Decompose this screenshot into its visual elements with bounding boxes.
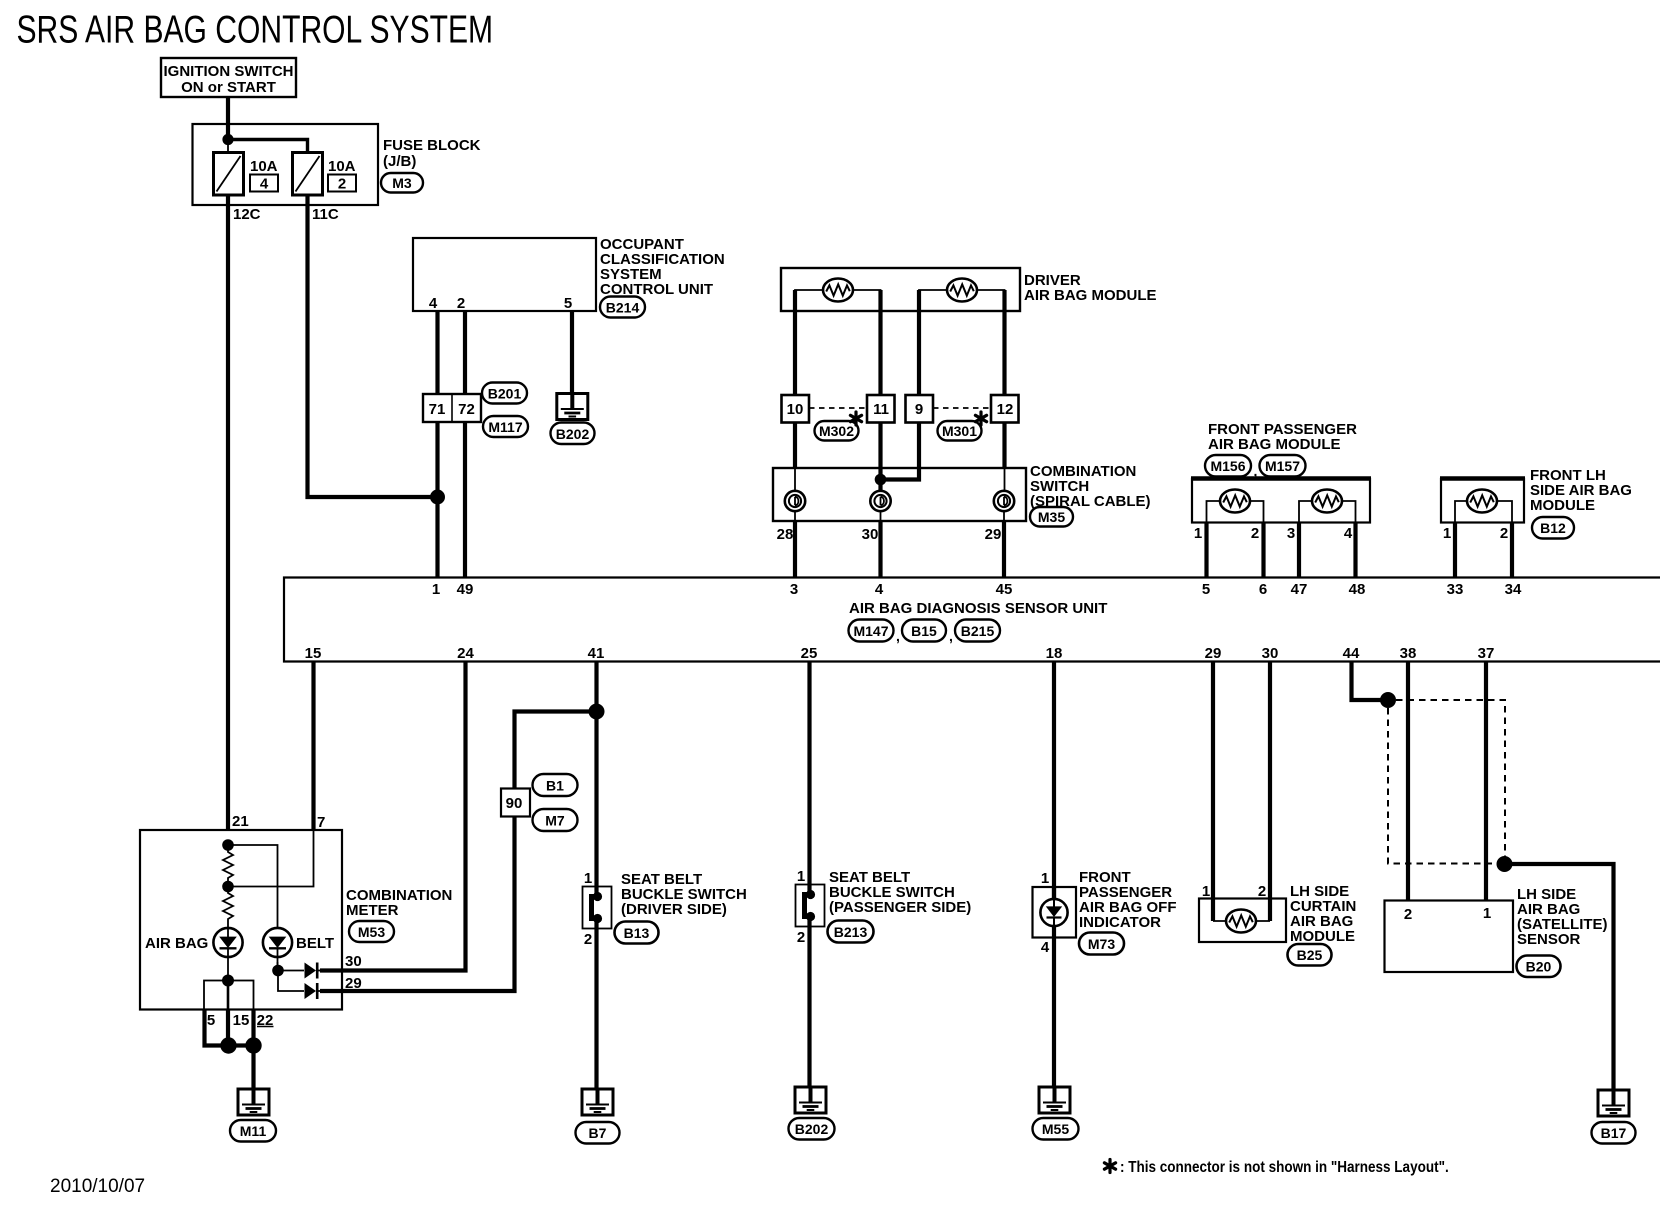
svg-text:ON or START: ON or START: [181, 79, 276, 96]
svg-text:B13: B13: [624, 925, 650, 941]
driver air bag squib 1: [823, 279, 853, 302]
wire sensor pin 25 to passenger buckle switch: [807, 661, 811, 894]
svg-text:M53: M53: [358, 924, 385, 940]
connector terminal 12 box: [991, 395, 1019, 423]
wire spiral 28 to sensor unit pin 3: [794, 511, 796, 577]
wire squib1 left lead: [795, 290, 823, 311]
connector M302 oval: [815, 421, 859, 441]
svg-text:5: 5: [207, 1012, 215, 1029]
node junction belt lamp output: [272, 965, 284, 977]
wire sensor pin 44 elbow to node: [1352, 661, 1385, 700]
node junction 11C joins occupant pin4 wire: [430, 490, 445, 505]
svg-text:37: 37: [1478, 645, 1495, 662]
svg-text:(DRIVER SIDE): (DRIVER SIDE): [621, 901, 727, 918]
svg-text:11C: 11C: [312, 206, 339, 223]
sensor unit bottom pin 24: [457, 645, 474, 662]
seat belt buckle switch passenger side B213 box: [796, 885, 825, 927]
svg-text:FUSE BLOCK: FUSE BLOCK: [383, 137, 481, 154]
AIR BAG lamp label: [145, 935, 208, 952]
sensor unit top pin 6: [1259, 581, 1267, 598]
curtain module pin 1 label: [1202, 883, 1210, 900]
svg-text:2: 2: [338, 176, 346, 193]
ground M55: [1039, 1087, 1070, 1113]
seat belt buckle switch driver side B13 box: [583, 887, 612, 929]
ground B7: [582, 1089, 613, 1115]
connector terminal 10 box: [782, 395, 810, 423]
svg-text:49: 49: [457, 581, 474, 598]
wire passenger pin4 to sensor pin 48: [1353, 522, 1357, 577]
spiral cable contact 28: [785, 491, 805, 511]
air bag diagnosis sensor unit box: [284, 578, 1660, 662]
front LH module label: [1530, 467, 1632, 514]
svg-text:M156: M156: [1210, 458, 1245, 474]
svg-text:5: 5: [1202, 581, 1210, 598]
svg-text:33: 33: [1447, 581, 1464, 598]
connector B1 oval: [533, 774, 578, 796]
svg-text:AIR BAG: AIR BAG: [145, 935, 208, 952]
wire 12C fuse to combination meter pin 21: [226, 195, 230, 830]
wire squib2 right lead: [977, 290, 1005, 311]
svg-text:B202: B202: [556, 426, 590, 442]
front passenger air bag module box: [1191, 479, 1371, 523]
node junction spiral cable feed: [875, 474, 887, 486]
wire sensor pin 38 to satellite sensor pin 2: [1406, 661, 1410, 900]
connector B15 oval: [902, 620, 946, 642]
comma 1: [896, 628, 900, 644]
svg-text:2010/10/07: 2010/10/07: [50, 1176, 145, 1197]
svg-text:41: 41: [588, 645, 605, 662]
fuse block M3: [193, 124, 379, 205]
svg-text:29: 29: [345, 975, 362, 992]
wire sensor pin 41 down to seat belt buckle switch: [594, 661, 598, 896]
MAIN TITLE: [17, 9, 494, 51]
svg-text:M55: M55: [1042, 1121, 1069, 1137]
node junction pin44 dashed link: [1380, 692, 1396, 708]
wire junction to fuse 4: [227, 140, 229, 154]
meter pin 7 label: [317, 814, 325, 831]
svg-text:10A: 10A: [328, 158, 356, 175]
sensor unit bottom pin 25: [801, 645, 818, 662]
indicator LED: [1040, 899, 1067, 926]
svg-text:B202: B202: [795, 1121, 829, 1137]
fuse 4 (10A): [214, 153, 279, 196]
occupant unit label: [600, 236, 725, 298]
svg-text:2: 2: [1251, 525, 1259, 542]
connector M117 oval: [483, 416, 528, 437]
svg-text:M147: M147: [853, 623, 888, 639]
connector B17 oval: [1592, 1122, 1636, 1144]
svg-text:44: 44: [1343, 645, 1360, 662]
asterisk mark M301: [975, 412, 986, 425]
svg-text:BELT: BELT: [296, 935, 334, 952]
svg-text:2: 2: [584, 931, 592, 948]
svg-text:72: 72: [458, 401, 475, 418]
svg-text:1: 1: [797, 868, 805, 885]
node junction between resistors: [222, 881, 234, 893]
dashed connector link 9-12: [933, 407, 991, 409]
dashed shield link box: [1388, 700, 1505, 864]
sensor unit top pin 4: [875, 581, 884, 598]
node junction lamp to pins 5/15: [222, 975, 234, 987]
ground M11: [238, 1089, 269, 1115]
wire connector 12 to spiral cable: [1002, 422, 1006, 491]
svg-text:30: 30: [1262, 645, 1279, 662]
terminal 12C label: [233, 206, 261, 223]
sensor unit top pin 49: [457, 581, 474, 598]
meter pin 15 label: [233, 1012, 250, 1029]
comma 2: [949, 628, 953, 644]
svg-text:21: 21: [232, 813, 249, 830]
svg-text:12: 12: [997, 401, 1014, 418]
wire junction 41 to connector 90 down to meter terminal 29: [320, 712, 597, 992]
wire 11C fuse down and right to node: [308, 195, 435, 497]
svg-text:30: 30: [862, 526, 879, 543]
svg-text:25: 25: [801, 645, 818, 662]
svg-text:M301: M301: [942, 423, 977, 439]
sensor unit top pin 45: [996, 581, 1013, 598]
combination switch label: [1030, 463, 1151, 510]
svg-text:IGNITION SWITCH: IGNITION SWITCH: [164, 63, 294, 80]
node junction meter pin21 branch: [222, 839, 234, 851]
svg-text:28: 28: [777, 526, 794, 543]
spiral cable contact 30: [870, 491, 890, 511]
fuse 2 (10A): [293, 153, 357, 196]
wire ignition switch to fuse block: [226, 97, 230, 140]
wire meter pin 22 down to ground: [251, 1009, 255, 1089]
svg-text:MODULE: MODULE: [1290, 928, 1355, 945]
connector B7 oval: [576, 1122, 620, 1144]
svg-text:71: 71: [429, 401, 446, 418]
indicator pin 1 label: [1041, 870, 1049, 887]
svg-text:45: 45: [996, 581, 1013, 598]
connector 71/72 box: [423, 394, 481, 422]
svg-text:B213: B213: [834, 924, 868, 940]
wire occupant pin 4 to sensor unit pin 1: [435, 311, 439, 577]
sensor unit label: [849, 600, 1107, 617]
wire module to connector 11: [878, 290, 882, 396]
svg-text:9: 9: [915, 401, 923, 418]
wire LH squib pin1 lead: [1455, 501, 1467, 522]
svg-text:29: 29: [1205, 645, 1222, 662]
terminal 11C label: [312, 206, 339, 223]
wire meter pin 15 down: [226, 1009, 230, 1046]
wire module to connector 12: [1002, 290, 1006, 396]
svg-text:34: 34: [1505, 581, 1522, 598]
wire passenger squib2 pin3 lead: [1299, 501, 1312, 522]
sensor unit bottom pin 44: [1343, 645, 1360, 662]
svg-text:: This connector is not shown: : This connector is not shown in "Harnes…: [1120, 1159, 1449, 1176]
svg-text:15: 15: [305, 645, 322, 662]
wire sensor pin 18 to air bag off indicator: [1052, 661, 1056, 899]
sensor unit top pin 48: [1349, 581, 1366, 598]
svg-text:AIR BAG DIAGNOSIS SENSOR UNIT: AIR BAG DIAGNOSIS SENSOR UNIT: [849, 600, 1107, 617]
buckle switch passenger pin 1 label: [797, 868, 805, 885]
wire sensor pin 37 to satellite sensor pin 1: [1484, 661, 1488, 900]
wire sensor pin 30 to curtain module pin 2: [1268, 661, 1272, 921]
connector B201 oval: [482, 383, 527, 404]
fuse block label: [383, 137, 481, 170]
connector M73 oval: [1079, 933, 1124, 955]
connector B215 oval: [955, 620, 1000, 642]
wire curtain squib leads: [1213, 920, 1270, 922]
buckle switch driver pin 1 label: [584, 870, 592, 887]
wire passenger squib1 pin2 lead: [1250, 501, 1264, 522]
resistor R1 (air bag lamp): [223, 845, 233, 886]
meter pin 5 label: [207, 1012, 215, 1029]
svg-text:29: 29: [985, 526, 1002, 543]
svg-text:M73: M73: [1088, 936, 1115, 952]
meter pin 21 label: [232, 813, 249, 830]
wire module to connector 10: [793, 290, 797, 396]
power source IGNITION SWITCH box: [161, 58, 296, 97]
svg-text:M7: M7: [545, 813, 565, 829]
sensor unit top pin 1: [432, 581, 440, 598]
svg-text:2: 2: [1404, 906, 1412, 923]
connector B202 oval (buckle ground): [789, 1118, 835, 1140]
connector terminal 9 box: [906, 395, 934, 423]
wire passenger pin2 to sensor pin 6: [1261, 522, 1265, 577]
svg-text:B20: B20: [1526, 959, 1552, 975]
svg-text:7: 7: [317, 814, 325, 831]
dashed connector link 10-11: [809, 407, 867, 409]
connector B214 oval: [600, 297, 645, 318]
wire LH pin1 to sensor pin 33: [1453, 522, 1457, 577]
svg-text:,: ,: [949, 628, 953, 644]
svg-text:10: 10: [787, 401, 804, 418]
sensor unit bottom pin 18: [1046, 645, 1063, 662]
svg-text:B214: B214: [606, 300, 640, 316]
svg-text:2: 2: [457, 295, 465, 312]
sensor unit top pin 33: [1447, 581, 1464, 598]
air bag warning lamp LED: [213, 928, 242, 957]
node junction pins 5-15: [220, 1037, 236, 1053]
meter terminal 30 label: [345, 953, 362, 970]
svg-text:1: 1: [1202, 883, 1210, 900]
diode output 30: [305, 963, 323, 979]
sensor unit top pin 3: [790, 581, 798, 598]
connector M55 oval: [1033, 1118, 1079, 1140]
terminal 30 label: [862, 526, 879, 543]
wire buckle driver to ground B7: [594, 919, 598, 1090]
passenger module pin 3 label: [1287, 525, 1295, 542]
wire node to node: [229, 1043, 254, 1047]
connector M147 oval: [849, 620, 894, 642]
seat belt buckle switch passenger label: [829, 869, 971, 916]
terminal 29 label: [985, 526, 1002, 543]
buckle switch passenger contacts: [805, 890, 816, 921]
svg-text:1: 1: [1443, 525, 1451, 542]
connector 90 box: [501, 789, 530, 817]
wire occupant pin 2 to sensor unit pin 49: [463, 311, 467, 577]
wire belt node down to diode 29: [278, 971, 304, 992]
passenger squib 2: [1312, 490, 1342, 513]
sensor unit bottom pin 30: [1262, 645, 1279, 662]
svg-text:INDICATOR: INDICATOR: [1079, 914, 1161, 931]
svg-text:4: 4: [1344, 525, 1353, 542]
svg-text:90: 90: [506, 795, 523, 812]
connector M35 oval: [1030, 507, 1073, 527]
svg-text:M35: M35: [1038, 509, 1065, 525]
svg-text:B12: B12: [1540, 520, 1566, 536]
ground B17: [1598, 1090, 1629, 1116]
svg-text:B17: B17: [1601, 1125, 1627, 1141]
connector M7 oval: [533, 809, 578, 831]
indicator label: [1079, 869, 1177, 931]
curtain module squib: [1226, 910, 1256, 933]
svg-text:B1: B1: [546, 778, 564, 794]
wire connector 10 to spiral cable: [793, 422, 797, 491]
passenger squib 1: [1220, 490, 1250, 513]
LH side curtain air bag module B25 box: [1199, 899, 1286, 943]
svg-text:5: 5: [564, 295, 572, 312]
connector M3 oval: [381, 173, 423, 193]
ground B202 (occupant unit): [557, 394, 588, 420]
svg-text:48: 48: [1349, 581, 1366, 598]
svg-text:3: 3: [790, 581, 798, 598]
driver air bag module box: [781, 268, 1020, 311]
svg-text:B7: B7: [589, 1125, 607, 1141]
wire shield node to ground B17: [1505, 864, 1614, 1090]
combination meter label: [346, 887, 452, 919]
combination switch (spiral cable) M35 box: [773, 468, 1026, 521]
svg-text:4: 4: [875, 581, 884, 598]
svg-text:M117: M117: [488, 419, 522, 435]
wire air bag lamp to meter pins: [227, 957, 229, 980]
svg-text:12C: 12C: [233, 206, 261, 223]
svg-text:(PASSENGER SIDE): (PASSENGER SIDE): [829, 899, 971, 916]
wire connector 11 to spiral cable: [878, 422, 882, 491]
BELT lamp label: [296, 935, 334, 952]
node junction pin 22: [245, 1037, 261, 1053]
sensor unit top pin 5: [1202, 581, 1210, 598]
wire passenger squib1 pin1 lead: [1207, 501, 1221, 522]
svg-text:1: 1: [584, 870, 592, 887]
svg-text:(J/B): (J/B): [383, 153, 416, 170]
wire passenger pin1 to sensor pin 5: [1204, 522, 1208, 577]
wire meter pin 15 inside: [227, 980, 230, 1009]
svg-text:M157: M157: [1265, 458, 1300, 474]
wire sensor pin 29 to curtain module pin 1: [1211, 661, 1215, 921]
wire junction to fuse 2: [228, 140, 308, 154]
svg-text:24: 24: [457, 645, 474, 662]
front LH module pin 1 label: [1443, 525, 1451, 542]
passenger module pin 2 label: [1251, 525, 1259, 542]
driver air bag module label: [1024, 272, 1157, 304]
svg-text:4: 4: [1041, 939, 1050, 956]
svg-text:2: 2: [797, 929, 805, 946]
wire LH squib pin2 lead: [1497, 501, 1512, 522]
wire branch to belt lamp: [228, 845, 278, 929]
meter pin 22 label: [257, 1012, 274, 1029]
passenger module pin 1 label: [1194, 525, 1202, 542]
curtain module pin 2 label: [1258, 883, 1266, 900]
wire module to connector 9: [917, 290, 921, 396]
wire passenger squib2 pin4 lead: [1342, 501, 1356, 522]
LH side air bag satellite sensor B20 box: [1385, 901, 1514, 973]
combination meter M53 box: [140, 830, 342, 1010]
wire indicator to ground M55: [1052, 937, 1056, 1087]
buckle switch driver pin 2 label: [584, 931, 592, 948]
indicator pin 4 label: [1041, 939, 1050, 956]
wire occupant pin 5 to ground: [570, 311, 574, 395]
front passenger air bag module label: [1208, 421, 1357, 453]
svg-text:AIR BAG MODULE: AIR BAG MODULE: [1208, 436, 1341, 453]
wire buckle passenger to ground B202: [807, 917, 811, 1088]
svg-text:15: 15: [233, 1012, 250, 1029]
connector M301 oval: [938, 421, 982, 441]
sensor unit top pin 34: [1505, 581, 1522, 598]
sensor unit bottom pin 37: [1478, 645, 1495, 662]
wire connector 9 elbow to node: [884, 422, 919, 480]
svg-text:,: ,: [896, 628, 900, 644]
sensor unit bottom pin 38: [1400, 645, 1417, 662]
passenger module pin 4 label: [1344, 525, 1353, 542]
connector M11 oval: [230, 1120, 276, 1142]
svg-text:B15: B15: [911, 623, 937, 639]
curtain module label: [1290, 883, 1356, 945]
terminal 28 label: [777, 526, 794, 543]
svg-text:M11: M11: [240, 1123, 267, 1139]
svg-text:AIR BAG MODULE: AIR BAG MODULE: [1024, 287, 1157, 304]
node junction shield to ground wire: [1497, 856, 1513, 872]
node junction on wire 41: [589, 704, 605, 720]
sensor unit bottom pin 41: [588, 645, 605, 662]
wire squib2 left lead: [919, 290, 947, 311]
svg-text:1: 1: [1483, 905, 1491, 922]
front LH module pin 2 label: [1500, 525, 1508, 542]
driver air bag squib 2: [947, 279, 977, 302]
connector B13 oval: [615, 922, 659, 944]
svg-text:M3: M3: [392, 175, 412, 191]
svg-text:2: 2: [1258, 883, 1266, 900]
svg-text:38: 38: [1400, 645, 1417, 662]
asterisk note: [1104, 1159, 1448, 1176]
wire belt node to diode 30: [278, 962, 305, 971]
svg-text:2: 2: [1500, 525, 1508, 542]
svg-text:METER: METER: [346, 902, 399, 919]
satellite sensor label: [1517, 886, 1608, 948]
front LH side air bag module box: [1440, 479, 1525, 523]
asterisk mark M302: [850, 412, 861, 425]
connector B25 oval: [1288, 944, 1332, 966]
svg-text:18: 18: [1046, 645, 1063, 662]
svg-text:3: 3: [1287, 525, 1295, 542]
wire through indicator: [1052, 887, 1056, 937]
svg-text:MODULE: MODULE: [1530, 497, 1595, 514]
belt warning lamp LED: [263, 928, 292, 965]
node junction in fuse block: [222, 134, 233, 145]
svg-text:SRS AIR BAG CONTROL SYSTEM: SRS AIR BAG CONTROL SYSTEM: [17, 9, 494, 51]
front passenger air bag off indicator M73 box: [1033, 887, 1077, 938]
svg-text:4: 4: [260, 176, 269, 193]
svg-text:10A: 10A: [250, 158, 278, 175]
ground B202 (passenger buckle): [795, 1087, 826, 1113]
front LH squib: [1467, 490, 1497, 513]
svg-text:30: 30: [345, 953, 362, 970]
wire squib1 right lead: [853, 290, 881, 311]
svg-text:11: 11: [873, 401, 889, 418]
resistor R2 (air bag lamp): [223, 887, 233, 929]
diode output 29: [305, 983, 323, 999]
svg-text:SENSOR: SENSOR: [1517, 931, 1581, 948]
connector terminal 11 box: [867, 395, 895, 423]
svg-text:B201: B201: [488, 386, 522, 402]
connector B20 oval: [1517, 956, 1561, 978]
date label: [50, 1176, 145, 1197]
spiral cable contact 29: [994, 491, 1014, 511]
satellite sensor pin 2 label: [1404, 906, 1412, 923]
wire meter pin 5 elbow: [205, 1009, 229, 1046]
